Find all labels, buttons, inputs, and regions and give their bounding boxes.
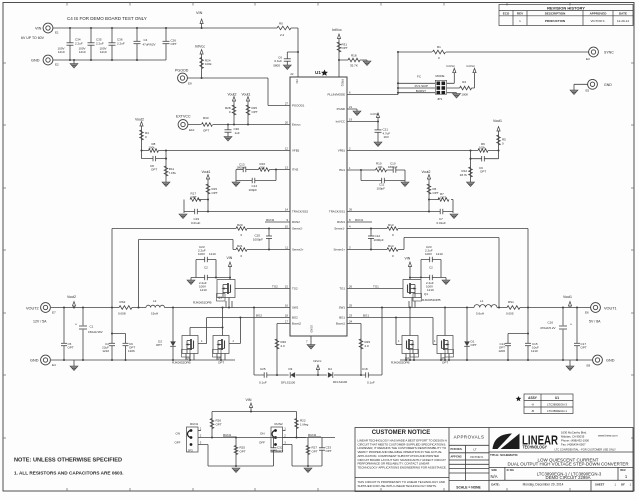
svg-text:Monday, December 29, 2014: Monday, December 29, 2014 <box>523 482 564 486</box>
svg-text:OFF: OFF <box>259 441 265 445</box>
svg-text:RS1: RS1 <box>508 300 514 304</box>
svg-text:VIN: VIN <box>246 398 252 402</box>
svg-text:R21: R21 <box>237 244 243 248</box>
svg-text:6V UP TO 60V: 6V UP TO 60V <box>21 36 45 40</box>
svg-text:R14: R14 <box>388 244 394 248</box>
svg-text:E1: E1 <box>55 31 59 35</box>
svg-text:2.2: 2.2 <box>280 33 285 37</box>
svg-text:OPT: OPT <box>218 360 224 364</box>
svg-text:19: 19 <box>349 118 353 122</box>
svg-text:16V: 16V <box>384 135 389 139</box>
svg-text:RS2: RS2 <box>120 300 126 304</box>
svg-text:RUN1: RUN1 <box>223 433 231 437</box>
svg-text:VFB2: VFB2 <box>292 149 300 153</box>
svg-text:BG1: BG1 <box>339 316 345 320</box>
svg-text:SW2: SW2 <box>292 306 299 310</box>
svg-text:GND: GND <box>604 83 612 87</box>
svg-text:23: 23 <box>349 314 353 318</box>
svg-text:R1: R1 <box>437 45 441 49</box>
svg-text:E7: E7 <box>52 311 56 315</box>
svg-text:2.2uF: 2.2uF <box>96 42 104 46</box>
svg-text:Vout1: Vout1 <box>242 93 251 97</box>
svg-text:PGOOD1: PGOOD1 <box>292 104 305 108</box>
svg-text:DATE:: DATE: <box>491 482 499 486</box>
svg-text:0.01uF: 0.01uF <box>437 221 447 225</box>
svg-text:RUN1: RUN1 <box>190 422 198 426</box>
svg-text:C25: C25 <box>260 367 266 371</box>
svg-text:R20: R20 <box>237 223 243 227</box>
svg-text:L2: L2 <box>153 299 157 303</box>
svg-text:Vout2: Vout2 <box>422 170 431 174</box>
svg-text:OPT: OPT <box>581 346 587 350</box>
svg-text:1000pF: 1000pF <box>253 238 263 242</box>
svg-text:OF: OF <box>621 482 625 486</box>
svg-text:JP3: JP3 <box>188 449 194 453</box>
svg-text:IntVcc: IntVcc <box>332 28 342 32</box>
svg-text:C16: C16 <box>547 321 553 325</box>
svg-text:E3: E3 <box>586 57 590 61</box>
svg-text:35.7K: 35.7K <box>350 64 358 68</box>
svg-text:DFLS1100: DFLS1100 <box>333 380 347 384</box>
svg-text:C4 IS FOR DEMO BOARD TEST ONLY: C4 IS FOR DEMO BOARD TEST ONLY <box>67 16 147 21</box>
svg-text:E6: E6 <box>585 311 589 315</box>
svg-text:E5: E5 <box>586 89 590 93</box>
svg-text:Vout2: Vout2 <box>228 93 237 97</box>
svg-text:RUN2: RUN2 <box>266 218 274 222</box>
svg-text:VIN: VIN <box>196 11 203 15</box>
svg-text:24: 24 <box>349 320 353 324</box>
svg-text:C1: C1 <box>90 325 94 329</box>
svg-text:Boost1: Boost1 <box>336 322 345 326</box>
svg-text:21: 21 <box>349 105 353 109</box>
svg-text:IntVcc: IntVcc <box>195 45 205 49</box>
svg-text:RJK0651DPB: RJK0651DPB <box>422 298 441 302</box>
svg-text:20K: 20K <box>260 166 265 170</box>
svg-text:TITLE: SCHEMATIC: TITLE: SCHEMATIC <box>490 453 519 457</box>
svg-text:10K: 10K <box>378 165 383 169</box>
svg-text:VIN: VIN <box>405 257 411 261</box>
svg-text:R2: R2 <box>462 80 466 84</box>
svg-text:APPROVALS: APPROVALS <box>454 434 485 439</box>
svg-text:ECO: ECO <box>503 12 510 16</box>
svg-text:5.6uH: 5.6uH <box>476 312 484 316</box>
svg-text:OPT: OPT <box>433 191 439 195</box>
svg-text:1800pF: 1800pF <box>237 166 247 170</box>
svg-text:OPT: OPT <box>203 129 209 133</box>
svg-text:SW1: SW1 <box>339 306 346 310</box>
svg-text:Vout2: Vout2 <box>135 118 144 122</box>
svg-text:SCALE = NONE: SCALE = NONE <box>456 485 481 489</box>
svg-text:VIN: VIN <box>295 79 299 83</box>
svg-text:SGND: SGND <box>310 325 314 333</box>
svg-text:E8: E8 <box>587 364 591 368</box>
svg-text:LTC3890EGN-3: LTC3890EGN-3 <box>547 402 567 406</box>
svg-text:R18: R18 <box>351 54 357 58</box>
svg-text:REVISION HISTORY: REVISION HISTORY <box>547 5 585 10</box>
svg-text:D4: D4 <box>328 367 332 371</box>
svg-text:N/A: N/A <box>491 474 498 479</box>
svg-text:150uF/16V: 150uF/16V <box>88 330 103 334</box>
svg-text:20: 20 <box>285 121 289 125</box>
svg-text:RUN2: RUN2 <box>275 422 283 426</box>
svg-text:E10: E10 <box>189 128 195 132</box>
svg-text:0.005: 0.005 <box>506 312 514 316</box>
svg-text:EXTVCC: EXTVCC <box>176 115 191 119</box>
svg-text:C4: C4 <box>144 38 148 42</box>
svg-text:ON: ON <box>260 432 265 436</box>
svg-text:1. ALL RESISTORS AND CAPACITO: 1. ALL RESISTORS AND CAPACITORS ARE 0603… <box>14 471 124 476</box>
svg-text:VIN: VIN <box>227 256 233 260</box>
svg-text:10: 10 <box>285 225 289 229</box>
svg-text:LTC CONFIDENTIAL - FOR CUSTOME: LTC CONFIDENTIAL - FOR CUSTOMER USE ONLY <box>555 447 617 451</box>
svg-text:RUN1: RUN1 <box>355 218 363 222</box>
svg-text:25: 25 <box>349 304 353 308</box>
svg-text:100V: 100V <box>425 252 432 256</box>
svg-text:1210: 1210 <box>531 349 538 353</box>
svg-text:1210: 1210 <box>427 288 434 292</box>
svg-text:Q3: Q3 <box>218 296 222 300</box>
svg-text:0.01uF: 0.01uF <box>191 221 201 225</box>
svg-text:PGND: PGND <box>337 107 345 111</box>
svg-text:LTC3890EGN-1: LTC3890EGN-1 <box>547 409 567 413</box>
svg-text:VICTOR K.: VICTOR K. <box>470 455 484 459</box>
svg-text:5V / 8A: 5V / 8A <box>589 320 601 324</box>
svg-text:DUAL OUTPUT HIGH VOLTAGE STEP-: DUAL OUTPUT HIGH VOLTAGE STEP-DOWN CONVE… <box>508 461 629 466</box>
svg-text:Sense1-: Sense1- <box>334 227 345 231</box>
svg-text:15uH: 15uH <box>151 312 158 316</box>
svg-text:DESCRIPTION: DESCRIPTION <box>545 12 566 16</box>
svg-text:100k: 100k <box>149 146 156 150</box>
svg-text:OPT: OPT <box>151 168 157 172</box>
svg-text:1210: 1210 <box>436 252 443 256</box>
svg-text:OPT: OPT <box>191 195 197 199</box>
svg-text:2.0: 2.0 <box>365 344 370 348</box>
svg-text:+: + <box>570 323 572 327</box>
svg-text:RUN2: RUN2 <box>308 433 316 437</box>
svg-text:Extvcc: Extvcc <box>292 123 301 127</box>
svg-text:17: 17 <box>285 320 289 324</box>
svg-text:PRODUCTION: PRODUCTION <box>545 19 565 23</box>
svg-text:VICTOR K.: VICTOR K. <box>591 19 606 23</box>
svg-text:0.1uF: 0.1uF <box>259 381 267 385</box>
svg-text:Sense2-: Sense2- <box>292 227 303 231</box>
svg-text:PCB DES.: PCB DES. <box>451 448 463 451</box>
svg-text:Fax: (408)434-0507: Fax: (408)434-0507 <box>561 442 586 446</box>
svg-text:16: 16 <box>285 304 289 308</box>
svg-text:TG1: TG1 <box>373 285 379 289</box>
svg-text:OPT: OPT <box>252 110 258 114</box>
svg-text:R33: R33 <box>203 116 209 120</box>
svg-text:OPT: OPT <box>326 449 332 453</box>
svg-text:C2: C2 <box>204 266 208 270</box>
svg-text:100k: 100k <box>479 146 486 150</box>
svg-text:SYNC: SYNC <box>604 51 614 55</box>
svg-text:26: 26 <box>349 285 353 289</box>
svg-text:IntVcc: IntVcc <box>371 112 380 116</box>
svg-text:U1: U1 <box>555 396 559 400</box>
svg-text:E4: E4 <box>52 363 56 367</box>
svg-text:ITH2: ITH2 <box>292 168 299 172</box>
svg-text:1210: 1210 <box>79 50 86 54</box>
svg-text:OPT: OPT <box>68 346 74 350</box>
svg-text:1210: 1210 <box>200 288 207 292</box>
svg-text:ITH1: ITH1 <box>339 168 346 172</box>
svg-text:RJK0652DPB: RJK0652DPB <box>391 360 410 364</box>
svg-text:Vout1: Vout1 <box>202 170 211 174</box>
svg-text:100pF: 100pF <box>249 188 258 192</box>
svg-text:11: 11 <box>285 246 288 250</box>
svg-text:12V / 5A: 12V / 5A <box>33 320 47 324</box>
svg-text:NOTE: UNLESS OTHERWISE SPECIFI: NOTE: UNLESS OTHERWISE SPECIFIED <box>14 458 122 464</box>
svg-text:TG2: TG2 <box>292 287 298 291</box>
svg-text:GND: GND <box>30 359 39 363</box>
svg-text:MODE: MODE <box>436 74 445 78</box>
svg-text:SHEET: SHEET <box>595 482 605 486</box>
svg-text:D3: D3 <box>289 367 293 371</box>
svg-text:7.15k: 7.15k <box>169 171 177 175</box>
svg-text:1206: 1206 <box>498 349 505 353</box>
svg-text:+: + <box>75 323 77 327</box>
svg-text:18: 18 <box>285 314 289 318</box>
svg-text:100K: 100K <box>461 93 468 97</box>
svg-text:13: 13 <box>285 166 289 170</box>
svg-text:Vout1: Vout1 <box>563 295 572 299</box>
svg-text:RJK0652DPB: RJK0652DPB <box>172 360 191 364</box>
svg-text:PLS SKIP: PLS SKIP <box>415 84 428 88</box>
svg-text:Sense2+: Sense2+ <box>292 248 304 252</box>
svg-text:DFLS1100: DFLS1100 <box>281 381 295 385</box>
svg-text:22: 22 <box>290 72 294 76</box>
svg-text:www.linear.com: www.linear.com <box>598 433 618 437</box>
svg-text:IntVcc: IntVcc <box>313 359 322 363</box>
svg-text:VOUT1: VOUT1 <box>604 307 617 311</box>
svg-text:27: 27 <box>285 102 289 106</box>
svg-text:1210: 1210 <box>209 252 216 256</box>
svg-text:GND: GND <box>606 359 615 363</box>
svg-text:26: 26 <box>349 208 353 212</box>
svg-text:TG2: TG2 <box>272 285 278 289</box>
svg-text:OPT: OPT <box>312 449 318 453</box>
svg-text:OPT: OPT <box>212 191 218 195</box>
svg-text:Q1: Q1 <box>424 292 428 296</box>
svg-text:JP1: JP1 <box>437 97 443 101</box>
svg-text:OPT: OPT <box>277 449 283 453</box>
svg-text:OPT: OPT <box>471 343 477 347</box>
svg-text:Vout1: Vout1 <box>493 119 502 123</box>
svg-text:470uF/6.2V: 470uF/6.2V <box>540 326 556 330</box>
svg-text:C18: C18 <box>362 367 368 371</box>
svg-text:R13: R13 <box>388 223 394 227</box>
svg-text:REV: REV <box>517 12 523 16</box>
svg-text:IntVcc: IntVcc <box>447 64 456 68</box>
svg-text:CUSTOMER NOTICE: CUSTOMER NOTICE <box>372 430 431 436</box>
svg-text:-A: -A <box>531 402 534 406</box>
svg-text:47uF/62V: 47uF/62V <box>143 43 156 47</box>
svg-text:BG2: BG2 <box>256 314 262 318</box>
svg-text:2.0: 2.0 <box>281 344 286 348</box>
svg-text:U1: U1 <box>315 70 321 75</box>
svg-text:0805: 0805 <box>273 63 280 67</box>
svg-text:IC NO.: IC NO. <box>507 469 515 472</box>
svg-text:2.2uF: 2.2uF <box>117 42 125 46</box>
svg-text:0.008: 0.008 <box>118 312 126 316</box>
svg-text:1800pF: 1800pF <box>388 165 398 169</box>
svg-text:OPT: OPT <box>342 46 348 50</box>
svg-text:TECHNOLOGY: TECHNOLOGY <box>523 445 548 450</box>
svg-text:18.7k: 18.7k <box>460 173 468 177</box>
svg-text:VIN: VIN <box>35 27 42 31</box>
svg-text:BG2: BG2 <box>292 316 298 320</box>
svg-text:100k: 100k <box>205 62 212 66</box>
svg-text:APP ENG: APP ENG <box>451 455 462 458</box>
svg-text:1210: 1210 <box>100 50 107 54</box>
svg-text:15: 15 <box>285 285 289 289</box>
svg-text:REV.: REV. <box>620 469 626 472</box>
svg-text:E9: E9 <box>188 82 192 86</box>
svg-text:L1: L1 <box>480 299 484 303</box>
svg-text:OPT: OPT <box>216 422 222 426</box>
svg-text:-B: -B <box>531 409 534 413</box>
svg-text:TG1: TG1 <box>339 287 345 291</box>
svg-text:Sense1+: Sense1+ <box>334 248 346 252</box>
svg-text:BG1: BG1 <box>363 314 369 318</box>
svg-text:R0: R0 <box>279 22 283 26</box>
svg-text:GND: GND <box>31 59 40 63</box>
svg-text:100pF: 100pF <box>377 186 386 190</box>
svg-text:PGOOD: PGOOD <box>175 69 189 73</box>
svg-text:1206: 1206 <box>128 349 135 353</box>
svg-text:LT: LT <box>473 448 476 452</box>
svg-text:Vout2: Vout2 <box>67 295 76 299</box>
svg-text:14: 14 <box>285 208 289 212</box>
svg-text:TRACK/SS2: TRACK/SS2 <box>292 210 308 214</box>
svg-text:TRACK/SS1: TRACK/SS1 <box>329 210 345 214</box>
svg-text:1000pF: 1000pF <box>374 238 384 242</box>
svg-text:ON: ON <box>176 432 181 436</box>
svg-text:DEMO CIRCUIT 2299A: DEMO CIRCUIT 2299A <box>545 475 590 480</box>
svg-text:1210: 1210 <box>58 50 65 54</box>
svg-text:RJK0651DPB: RJK0651DPB <box>193 301 212 305</box>
svg-text:OPT: OPT <box>480 170 486 174</box>
svg-text:IntVcc: IntVcc <box>467 64 476 68</box>
svg-text:DATE: DATE <box>619 12 627 16</box>
svg-text:SUPPLIED FOR USE WITH LINEAR T: SUPPLIED FOR USE WITH LINEAR TECHNOLOGY … <box>358 484 437 488</box>
svg-text:VFB1: VFB1 <box>338 149 346 153</box>
svg-text:100V: 100V <box>198 252 205 256</box>
svg-text:IntVCC: IntVCC <box>336 120 345 124</box>
svg-text:C2: C2 <box>429 266 433 270</box>
svg-text:VOUT2: VOUT2 <box>26 307 39 311</box>
svg-text:FREQ: FREQ <box>341 79 345 86</box>
svg-text:OPT: OPT <box>240 449 246 453</box>
svg-text:RUN2: RUN2 <box>292 220 300 224</box>
svg-text:RUN1: RUN1 <box>337 220 345 224</box>
svg-text:12: 12 <box>285 147 289 151</box>
svg-text:E2: E2 <box>55 63 59 67</box>
svg-text:1 Meg: 1 Meg <box>300 422 309 426</box>
svg-text:APPROVED: APPROVED <box>590 12 608 16</box>
svg-text:PLLIN/MODE: PLLIN/MODE <box>327 93 345 97</box>
svg-text:OPT: OPT <box>440 196 446 200</box>
svg-text:BURST: BURST <box>416 89 426 93</box>
svg-text:0.1uF: 0.1uF <box>367 381 375 385</box>
svg-text:1uF: 1uF <box>235 131 240 135</box>
svg-text:OFF: OFF <box>175 441 181 445</box>
svg-text:ASSY: ASSY <box>528 396 538 400</box>
svg-text:Boost2: Boost2 <box>292 322 301 326</box>
svg-text:1210: 1210 <box>102 349 109 353</box>
svg-text:12-29-14: 12-29-14 <box>617 19 629 23</box>
svg-text:SIZE: SIZE <box>491 469 497 472</box>
svg-text:OPT: OPT <box>171 42 177 46</box>
svg-text:OPT: OPT <box>156 343 162 347</box>
svg-text:2.2uF: 2.2uF <box>75 42 83 46</box>
svg-text:TECHNOLOGY APPLICATIONS ENGINE: TECHNOLOGY APPLICATIONS ENGINEERING FOR … <box>358 465 447 469</box>
